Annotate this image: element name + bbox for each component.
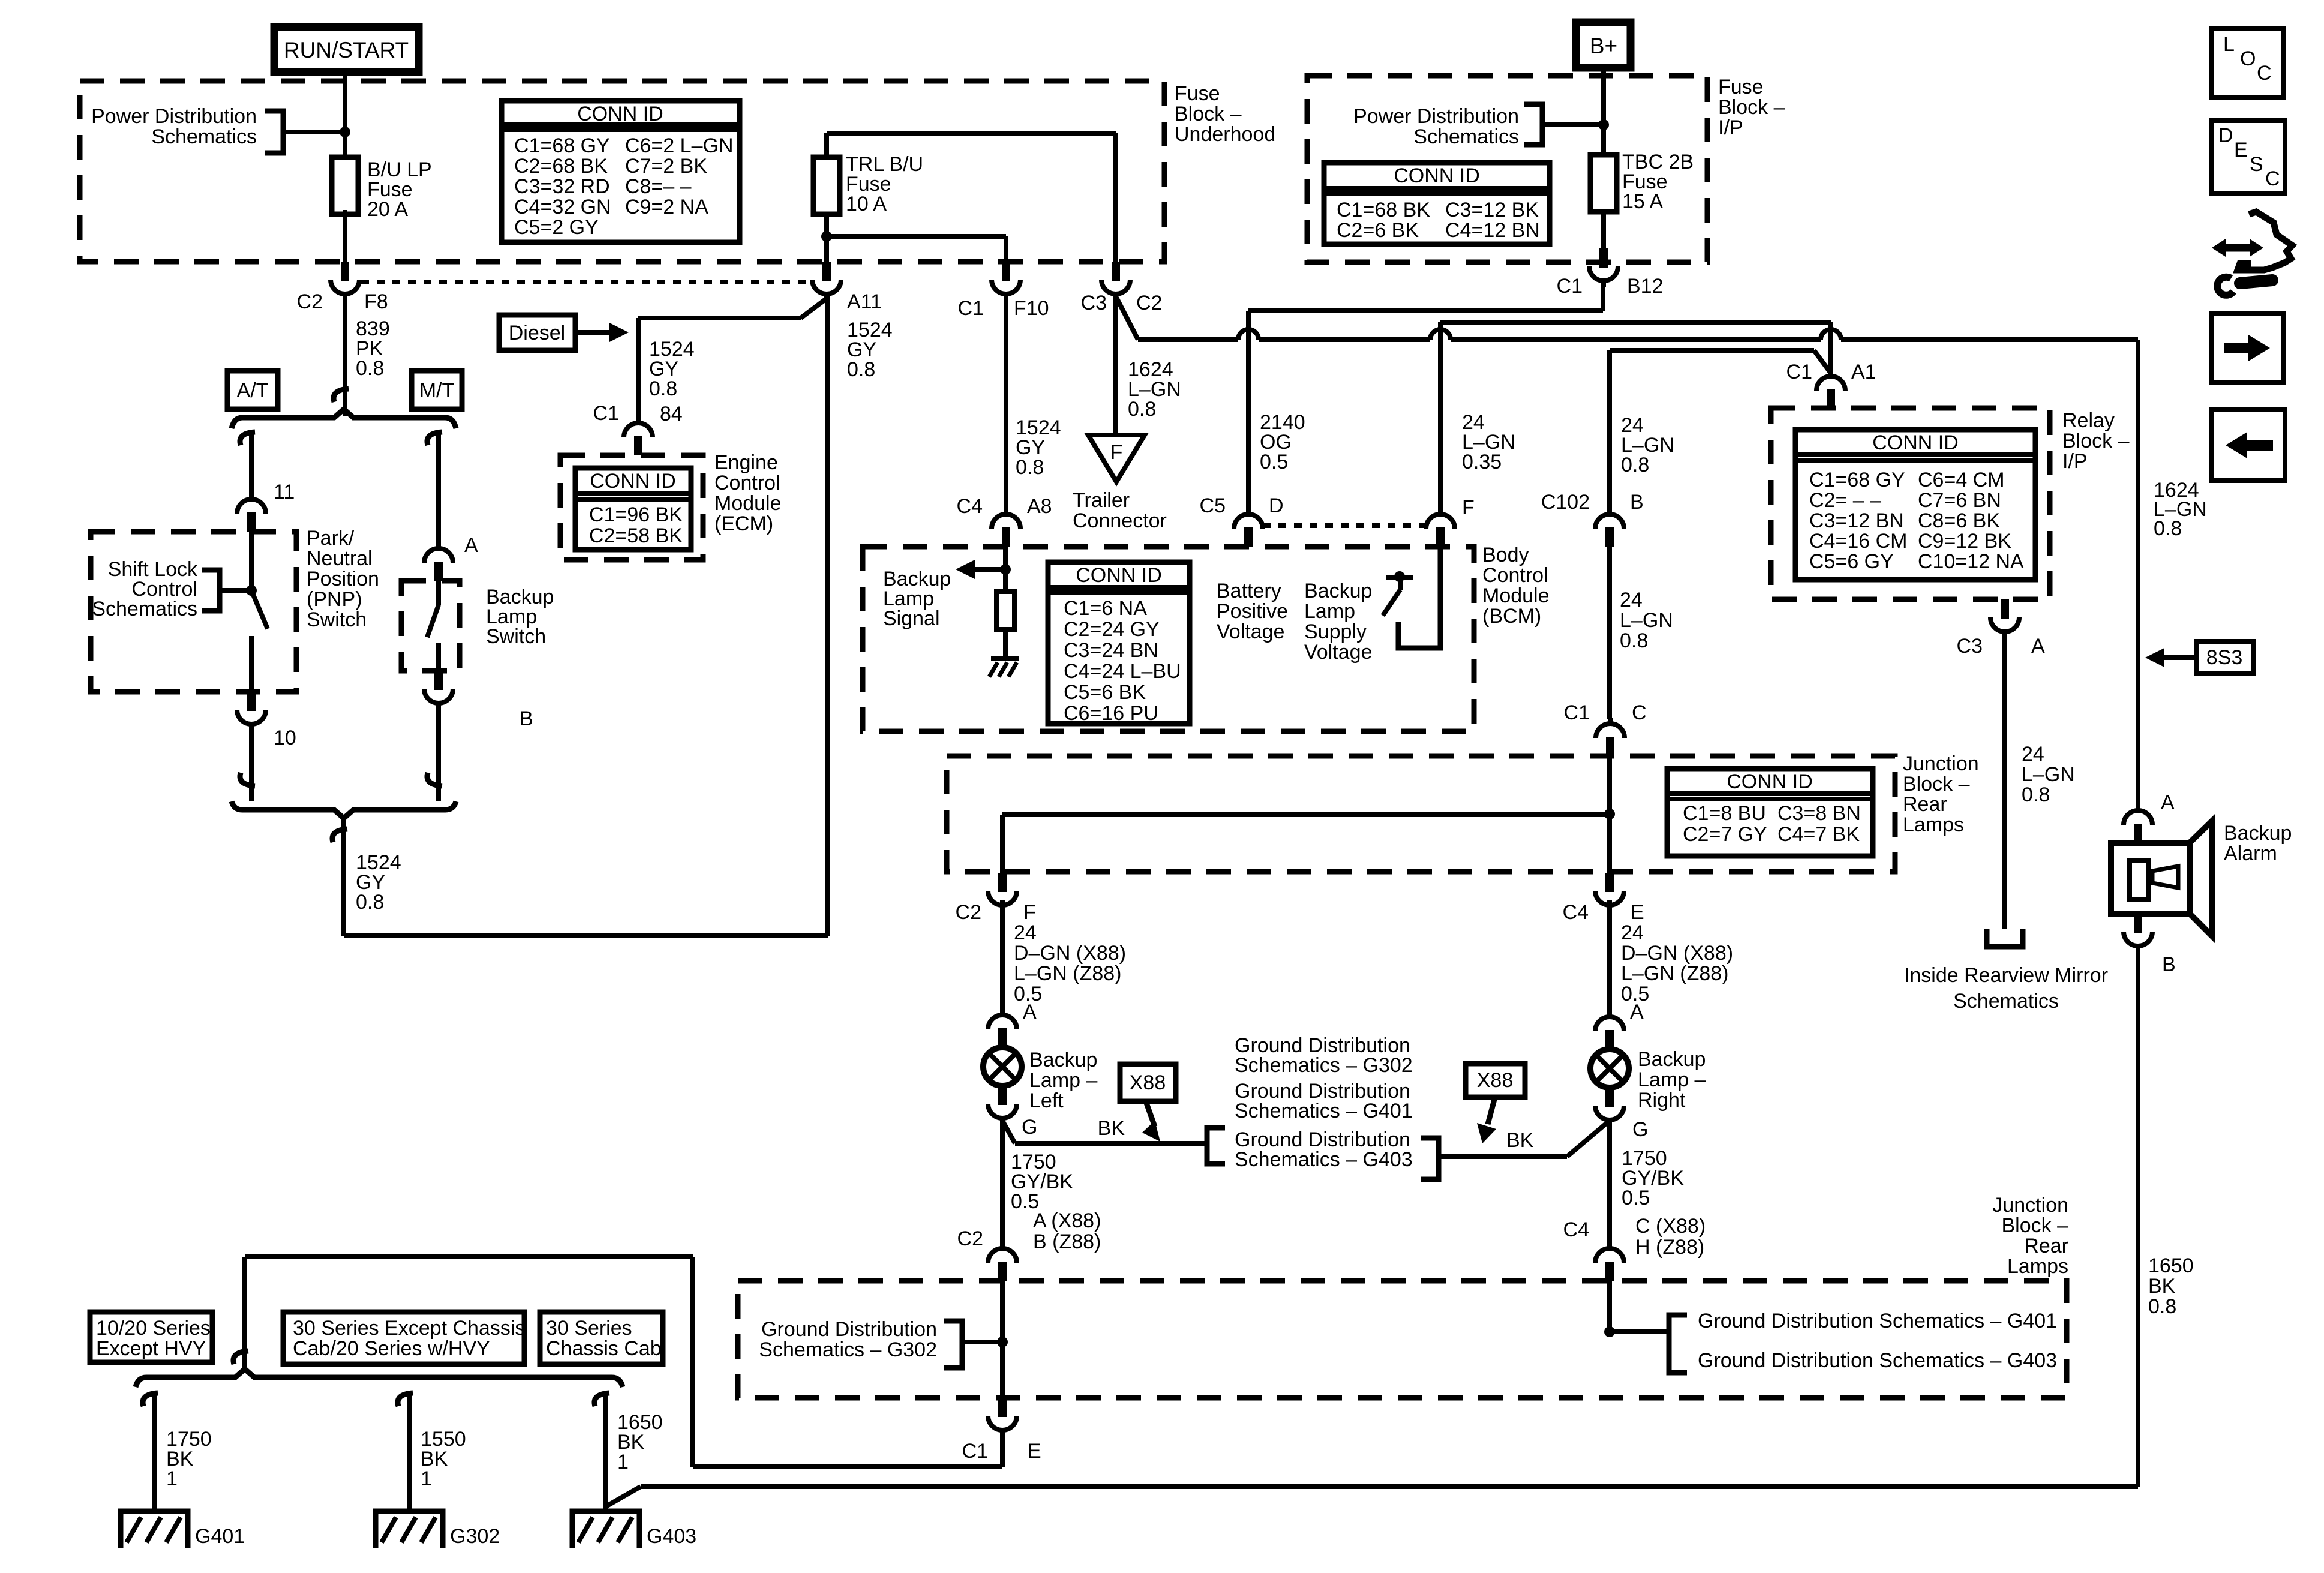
svg-text:C2: C2 <box>297 290 323 313</box>
svg-text:C1: C1 <box>1564 701 1590 724</box>
svg-text:0.8: 0.8 <box>2154 517 2182 540</box>
svg-text:Block –: Block – <box>2002 1214 2069 1237</box>
svg-text:84: 84 <box>660 403 683 425</box>
svg-text:Power Distribution: Power Distribution <box>91 105 257 128</box>
svg-text:0.8: 0.8 <box>356 891 384 914</box>
svg-text:X88: X88 <box>1477 1069 1514 1092</box>
svg-text:F8: F8 <box>364 290 388 313</box>
svg-text:Except HVY: Except HVY <box>96 1337 206 1360</box>
svg-text:24: 24 <box>1621 921 1644 944</box>
svg-text:CONN ID: CONN ID <box>577 103 663 125</box>
svg-text:M/T: M/T <box>419 379 455 402</box>
svg-text:Battery: Battery <box>1217 580 1281 602</box>
svg-text:C2: C2 <box>956 901 981 924</box>
svg-text:Lamps: Lamps <box>2007 1255 2068 1278</box>
svg-text:C3=12 BK: C3=12 BK <box>1445 199 1539 221</box>
svg-text:C2=7 GY: C2=7 GY <box>1683 823 1767 846</box>
svg-text:C2= – –: C2= – – <box>1809 489 1881 512</box>
svg-text:0.8: 0.8 <box>356 357 384 380</box>
svg-text:Junction: Junction <box>1992 1194 2068 1217</box>
svg-text:Cab/20 Series w/HVY: Cab/20 Series w/HVY <box>293 1337 490 1360</box>
svg-text:D: D <box>2218 124 2233 147</box>
svg-text:Lamp –: Lamp – <box>1029 1069 1097 1092</box>
svg-text:F: F <box>1110 441 1123 464</box>
svg-text:C5=6 GY: C5=6 GY <box>1809 550 1894 573</box>
svg-text:Diesel: Diesel <box>509 322 565 344</box>
svg-text:C2: C2 <box>957 1227 983 1250</box>
svg-text:C5=2 GY: C5=2 GY <box>514 216 599 239</box>
svg-text:I/P: I/P <box>1718 116 1743 139</box>
svg-text:B (Z88): B (Z88) <box>1033 1230 1101 1253</box>
svg-text:C9=12 BK: C9=12 BK <box>1918 530 2011 553</box>
svg-text:C: C <box>1632 701 1647 724</box>
svg-text:(PNP): (PNP) <box>307 588 362 611</box>
svg-text:CONN ID: CONN ID <box>1727 770 1813 793</box>
svg-text:C3=24 BN: C3=24 BN <box>1064 639 1158 662</box>
svg-text:C1=8 BU: C1=8 BU <box>1683 802 1766 825</box>
svg-text:C4=16 CM: C4=16 CM <box>1809 530 1907 553</box>
svg-text:A1: A1 <box>1851 361 1876 383</box>
svg-text:Control: Control <box>714 472 780 494</box>
svg-text:0.8: 0.8 <box>1016 456 1044 479</box>
svg-text:24: 24 <box>1620 589 1643 611</box>
svg-text:C7=2 BK: C7=2 BK <box>625 155 707 178</box>
svg-text:Module: Module <box>1482 584 1550 607</box>
svg-text:Schematics: Schematics <box>92 598 197 620</box>
svg-text:Engine: Engine <box>714 451 778 474</box>
svg-text:C8=– –: C8=– – <box>625 175 692 198</box>
svg-text:C4=7 BK: C4=7 BK <box>1777 823 1860 846</box>
svg-text:B: B <box>2162 953 2176 976</box>
svg-text:RUN/START: RUN/START <box>284 38 409 62</box>
svg-text:Switch: Switch <box>307 608 367 631</box>
svg-text:C3=32 RD: C3=32 RD <box>514 175 610 198</box>
svg-text:Control: Control <box>1482 564 1548 587</box>
svg-text:C4: C4 <box>957 495 983 518</box>
svg-text:8S3: 8S3 <box>2206 646 2243 669</box>
svg-text:Fuse: Fuse <box>1175 82 1220 105</box>
svg-text:A11: A11 <box>847 290 882 313</box>
svg-text:C3=12 BN: C3=12 BN <box>1809 509 1904 532</box>
svg-text:A/T: A/T <box>237 379 269 402</box>
svg-text:10: 10 <box>274 727 296 749</box>
svg-text:C3: C3 <box>1081 292 1107 314</box>
svg-text:C1=68 BK: C1=68 BK <box>1337 199 1430 221</box>
svg-text:L–GN: L–GN <box>1620 609 1673 632</box>
svg-text:Backup: Backup <box>2224 822 2292 845</box>
svg-text:C1: C1 <box>962 1440 988 1463</box>
svg-text:Ground Distribution: Ground Distribution <box>761 1318 937 1341</box>
svg-text:CONN ID: CONN ID <box>590 470 676 493</box>
svg-text:C6=4 CM: C6=4 CM <box>1918 469 2005 491</box>
svg-text:0.8: 0.8 <box>847 358 875 381</box>
svg-text:Ground Distribution Schematics: Ground Distribution Schematics – G403 <box>1698 1349 2057 1372</box>
svg-text:Body: Body <box>1482 544 1529 566</box>
svg-text:C2=68 BK: C2=68 BK <box>514 155 608 178</box>
svg-text:Alarm: Alarm <box>2224 842 2277 865</box>
svg-text:C1: C1 <box>958 297 984 320</box>
svg-text:0.8: 0.8 <box>1620 629 1648 652</box>
svg-text:D: D <box>1269 494 1284 517</box>
svg-text:L–GN (Z88): L–GN (Z88) <box>1014 962 1122 985</box>
svg-text:30 Series Except Chassis: 30 Series Except Chassis <box>293 1317 525 1340</box>
svg-text:Module: Module <box>714 492 782 515</box>
svg-text:C7=6 BN: C7=6 BN <box>1918 489 2001 512</box>
svg-text:15 A: 15 A <box>1622 190 1663 213</box>
svg-text:0.5: 0.5 <box>1622 1187 1650 1209</box>
svg-text:G: G <box>1632 1118 1648 1141</box>
svg-text:L–GN: L–GN <box>2022 763 2075 786</box>
svg-text:C4: C4 <box>1563 901 1589 924</box>
svg-text:Block –: Block – <box>1903 773 1970 795</box>
svg-text:C10=12 NA: C10=12 NA <box>1918 550 2024 573</box>
svg-text:C: C <box>2257 62 2272 85</box>
svg-text:G: G <box>1022 1116 1037 1139</box>
svg-text:Fuse: Fuse <box>1718 76 1764 98</box>
svg-text:0.8: 0.8 <box>1621 454 1649 476</box>
svg-text:Backup: Backup <box>1304 580 1372 602</box>
svg-text:C: C <box>2265 167 2280 190</box>
svg-text:Lamps: Lamps <box>1903 813 1964 836</box>
svg-text:B+: B+ <box>1590 34 1617 58</box>
svg-text:E: E <box>2234 139 2248 161</box>
svg-text:C5=6 BK: C5=6 BK <box>1064 681 1146 704</box>
svg-text:Relay: Relay <box>2062 409 2115 432</box>
svg-text:Block –: Block – <box>1718 96 1785 119</box>
svg-text:Left: Left <box>1029 1089 1064 1112</box>
svg-text:C1=6 NA: C1=6 NA <box>1064 597 1147 620</box>
svg-text:Rear: Rear <box>1903 793 1947 816</box>
svg-text:C5: C5 <box>1200 494 1226 517</box>
svg-text:C8=6 BK: C8=6 BK <box>1918 509 2000 532</box>
svg-text:Inside Rearview Mirror: Inside Rearview Mirror <box>1904 964 2108 987</box>
svg-text:Chassis Cab: Chassis Cab <box>546 1337 662 1360</box>
svg-text:C1: C1 <box>1557 275 1583 298</box>
svg-text:G302: G302 <box>450 1525 500 1548</box>
svg-text:Supply: Supply <box>1304 620 1367 643</box>
svg-text:CONN ID: CONN ID <box>1394 164 1480 187</box>
svg-text:C1=96 BK: C1=96 BK <box>589 503 683 526</box>
svg-text:20 A: 20 A <box>367 198 408 221</box>
svg-text:24: 24 <box>1014 921 1037 944</box>
svg-text:C1=68 GY: C1=68 GY <box>1809 469 1905 491</box>
svg-text:CONN ID: CONN ID <box>1076 564 1162 587</box>
svg-text:Backup: Backup <box>1029 1049 1097 1071</box>
svg-text:0.8: 0.8 <box>1128 398 1156 421</box>
svg-text:C3=8 BN: C3=8 BN <box>1777 802 1861 825</box>
svg-text:11: 11 <box>274 481 295 503</box>
svg-text:1: 1 <box>166 1467 178 1490</box>
svg-text:0.8: 0.8 <box>649 377 677 400</box>
svg-text:Rear: Rear <box>2024 1235 2068 1257</box>
svg-text:BK: BK <box>2148 1275 2176 1298</box>
svg-text:C2=24 GY: C2=24 GY <box>1064 618 1160 641</box>
svg-text:Voltage: Voltage <box>1304 641 1372 664</box>
svg-text:BK: BK <box>1098 1117 1125 1140</box>
svg-text:I/P: I/P <box>2062 450 2088 473</box>
svg-text:C2=58 BK: C2=58 BK <box>589 524 683 547</box>
svg-text:C4=12 BN: C4=12 BN <box>1445 219 1540 242</box>
svg-text:24: 24 <box>2022 743 2044 766</box>
svg-text:X88: X88 <box>1130 1071 1166 1094</box>
svg-text:B12: B12 <box>1627 275 1664 298</box>
svg-text:C2=6 BK: C2=6 BK <box>1337 219 1419 242</box>
svg-text:G401: G401 <box>195 1525 245 1548</box>
svg-text:C1: C1 <box>1786 361 1812 383</box>
svg-text:Connector: Connector <box>1073 509 1167 532</box>
svg-text:C3: C3 <box>1957 635 1983 658</box>
svg-text:Underhood: Underhood <box>1175 123 1275 146</box>
svg-text:Ground Distribution Schematics: Ground Distribution Schematics – G401 <box>1698 1310 2057 1332</box>
svg-text:F: F <box>1462 496 1475 519</box>
svg-text:10/20 Series: 10/20 Series <box>96 1317 211 1340</box>
svg-text:C4=24 L–BU: C4=24 L–BU <box>1064 660 1181 683</box>
svg-text:1: 1 <box>421 1467 432 1490</box>
svg-text:A: A <box>1023 1001 1037 1023</box>
svg-text:C6=16 PU: C6=16 PU <box>1064 702 1158 725</box>
svg-text:L: L <box>2223 33 2235 56</box>
svg-text:1: 1 <box>617 1451 629 1473</box>
svg-text:G403: G403 <box>647 1525 696 1548</box>
svg-text:A: A <box>2031 635 2045 658</box>
svg-text:Park/: Park/ <box>307 527 355 550</box>
svg-text:B: B <box>520 707 533 730</box>
svg-text:Trailer: Trailer <box>1073 489 1130 512</box>
svg-text:C1: C1 <box>593 402 619 425</box>
svg-text:L–GN (Z88): L–GN (Z88) <box>1621 962 1729 985</box>
svg-text:C (X88): C (X88) <box>1635 1215 1706 1238</box>
svg-text:Voltage: Voltage <box>1217 620 1284 643</box>
svg-text:F10: F10 <box>1014 297 1049 320</box>
svg-text:Schematics – G403: Schematics – G403 <box>1235 1148 1413 1171</box>
svg-text:A: A <box>1630 1001 1644 1023</box>
svg-text:C4=32 GN: C4=32 GN <box>514 196 611 218</box>
svg-text:Lamp –: Lamp – <box>1638 1068 1706 1091</box>
svg-text:0.8: 0.8 <box>2022 784 2050 806</box>
svg-text:C2: C2 <box>1136 292 1162 314</box>
svg-text:0.5: 0.5 <box>1260 451 1288 473</box>
svg-text:Neutral: Neutral <box>307 547 373 570</box>
svg-text:Schematics: Schematics <box>1953 990 2059 1013</box>
svg-text:BK: BK <box>1506 1129 1534 1152</box>
svg-text:E: E <box>1631 901 1644 924</box>
svg-text:C6=2 L–GN: C6=2 L–GN <box>625 134 734 157</box>
svg-text:Junction: Junction <box>1903 752 1979 775</box>
svg-text:(BCM): (BCM) <box>1482 605 1541 628</box>
svg-text:Switch: Switch <box>486 625 546 648</box>
svg-text:Schematics: Schematics <box>151 125 257 148</box>
svg-text:Schematics: Schematics <box>1413 125 1519 148</box>
svg-text:O: O <box>2240 47 2256 70</box>
svg-text:D–GN (X88): D–GN (X88) <box>1014 942 1126 965</box>
svg-text:A: A <box>2161 791 2175 814</box>
svg-text:Power Distribution: Power Distribution <box>1353 105 1519 128</box>
svg-text:C9=2 NA: C9=2 NA <box>625 196 708 218</box>
svg-text:H (Z88): H (Z88) <box>1635 1236 1704 1259</box>
svg-text:S: S <box>2250 153 2263 176</box>
svg-text:(ECM): (ECM) <box>714 512 773 535</box>
svg-text:C102: C102 <box>1541 491 1590 514</box>
svg-text:30 Series: 30 Series <box>546 1317 632 1340</box>
svg-text:Positive: Positive <box>1217 600 1288 623</box>
svg-text:Right: Right <box>1638 1089 1686 1112</box>
svg-text:Schematics – G302: Schematics – G302 <box>759 1338 937 1361</box>
svg-text:Schematics – G401: Schematics – G401 <box>1235 1100 1413 1122</box>
svg-text:C4: C4 <box>1563 1218 1589 1241</box>
svg-text:Schematics – G302: Schematics – G302 <box>1235 1054 1413 1077</box>
svg-text:1650: 1650 <box>2148 1254 2194 1277</box>
svg-text:C1=68 GY: C1=68 GY <box>514 134 610 157</box>
svg-text:E: E <box>1028 1440 1041 1463</box>
svg-text:A8: A8 <box>1027 495 1052 518</box>
svg-text:Signal: Signal <box>883 607 940 630</box>
svg-text:CONN ID: CONN ID <box>1872 431 1959 454</box>
svg-text:Block –: Block – <box>2062 430 2130 452</box>
svg-text:10 A: 10 A <box>846 193 887 215</box>
svg-text:Backup: Backup <box>1638 1048 1706 1071</box>
svg-text:A: A <box>464 534 478 557</box>
svg-text:A (X88): A (X88) <box>1033 1209 1101 1232</box>
svg-text:Lamp: Lamp <box>1304 600 1355 623</box>
svg-text:D–GN (X88): D–GN (X88) <box>1621 942 1733 965</box>
svg-text:Position: Position <box>307 568 379 590</box>
svg-text:Block –: Block – <box>1175 103 1242 125</box>
svg-text:0.35: 0.35 <box>1462 451 1502 473</box>
svg-text:B: B <box>1630 491 1644 514</box>
svg-text:0.8: 0.8 <box>2148 1295 2176 1318</box>
svg-text:F: F <box>1023 901 1036 924</box>
